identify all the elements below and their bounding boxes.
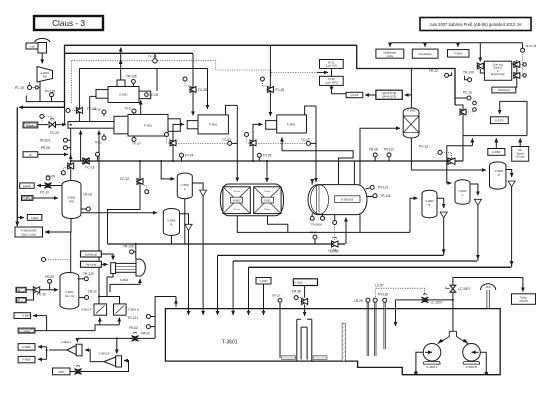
svg-text:(Luft / HG): (Luft / HG) [326,65,337,68]
svg-text:TR-107: TR-107 [132,142,141,146]
svg-text:Fackel: Fackel [23,184,31,188]
svg-text:J-3601 A: J-3601 A [61,340,72,344]
svg-text:PR-18: PR-18 [93,108,101,112]
svg-text:Nd-Kond: Nd-Kond [86,263,97,267]
svg-text:(Luft / HFS): (Luft / HFS) [325,82,338,85]
svg-text:FY-24: FY-24 [185,154,194,158]
svg-text:TR-09/09: TR-09/09 [311,223,322,227]
svg-text:E-3651: E-3651 [492,150,501,154]
svg-text:34-PC-15: 34-PC-15 [526,45,537,48]
svg-text:F-3601: F-3601 [144,124,153,128]
svg-text:FC-10: FC-10 [40,191,49,195]
svg-text:FC-20: FC-20 [50,131,59,135]
svg-text:V-3603: V-3603 [181,183,190,187]
svg-text:TR-108: TR-108 [148,55,157,59]
svg-text:A-3601: A-3601 [41,71,50,75]
svg-text:Beheizungen: Beheizungen [491,73,506,76]
svg-text:FR-38: FR-38 [292,289,301,293]
svg-text:FY-26: FY-26 [263,154,272,158]
svg-text:FC-26: FC-26 [275,88,284,92]
svg-text:TR-106: TR-106 [126,75,137,79]
svg-text:471/2/3: 471/2/3 [519,299,528,303]
svg-text:V-3603: V-3603 [425,199,434,203]
svg-text:FR-28: FR-28 [369,148,378,152]
svg-text:HD-Dampf: HD-Dampf [498,89,510,92]
svg-text:V-3603: V-3603 [167,219,176,223]
svg-text:R-3602: R-3602 [233,200,241,202]
svg-text:V-3604: V-3604 [65,290,74,294]
svg-text:H2: H2 [17,288,21,292]
svg-text:TR-xxx: TR-xxx [264,191,270,193]
svg-text:HG / C2: HG / C2 [65,294,75,298]
svg-text:T-3601: T-3601 [222,340,238,346]
svg-text:D: D [498,173,500,177]
svg-text:C2: C2 [17,298,21,302]
svg-text:V-3602: V-3602 [407,108,416,112]
svg-text:HFS: HFS [25,196,30,200]
svg-text:FR-39: FR-39 [45,275,54,279]
svg-text:N²: N² [29,153,32,157]
svg-text:R-3601: R-3601 [264,200,272,202]
svg-text:Nd-Dampf: Nd-Dampf [85,252,97,256]
svg-text:V-3601: V-3601 [67,196,76,200]
svg-text:Claus - 3: Claus - 3 [52,19,85,28]
svg-text:LC-07: LC-07 [375,283,384,287]
svg-text:LC-09: LC-09 [150,93,159,97]
svg-text:(3.5 bar): (3.5 bar) [516,156,525,159]
svg-text:TR-112: TR-112 [384,148,395,152]
svg-text:E-3602/03: E-3602/03 [341,197,354,201]
svg-text:S-3601 A: S-3601 A [81,308,92,312]
svg-text:Grube: Grube [386,55,393,58]
svg-text:FC-22: FC-22 [120,177,129,181]
svg-text:F-3401: F-3401 [454,52,463,56]
svg-text:S-3604: S-3604 [120,278,129,282]
svg-text:TR-02: TR-02 [124,107,132,111]
svg-text:F-3652: F-3652 [22,345,31,349]
svg-text:V-3407: V-3407 [259,279,268,283]
svg-text:TR-xxx: TR-xxx [233,209,239,211]
svg-text:TR-xxx: TR-xxx [233,191,239,193]
svg-text:B: B [171,222,173,226]
svg-text:LC-1007: LC-1007 [431,300,443,304]
svg-text:TR-12: TR-12 [94,141,102,145]
svg-text:LC-06: LC-06 [330,249,339,253]
svg-text:PC-10: PC-10 [463,91,472,95]
svg-text:B: B [429,203,431,207]
svg-text:FC-09: FC-09 [46,175,55,179]
svg-text:TR-xxx: TR-xxx [264,209,270,211]
svg-text:QC-02: QC-02 [351,93,359,97]
svg-text:J-3601 B: J-3601 B [99,351,110,355]
svg-text:V-3603: V-3603 [458,189,467,193]
svg-text:A: A [184,187,186,191]
svg-text:LR-12: LR-12 [88,290,97,294]
svg-text:Verteilstation: Verteilstation [418,53,432,56]
svg-text:PC-19: PC-19 [15,86,24,90]
svg-text:TR-118: TR-118 [378,292,389,296]
svg-text:TR-117: TR-117 [272,293,281,297]
svg-text:FC-18: FC-18 [86,166,95,170]
svg-text:TR-109: TR-109 [123,244,134,248]
svg-text:E-3703: E-3703 [495,119,504,123]
svg-text:PR-09: PR-09 [41,146,50,150]
svg-text:Erdgas: Erdgas [26,124,35,128]
svg-text:FR-02: FR-02 [129,326,138,330]
svg-text:PC-20: PC-20 [37,292,46,296]
svg-text:TR-123: TR-123 [83,272,94,276]
svg-text:E-3601: E-3601 [119,93,128,97]
svg-text:TR-121: TR-121 [127,316,138,320]
svg-text:LC-3007: LC-3007 [458,287,470,291]
svg-text:TR-103: TR-103 [39,139,50,143]
svg-text:K-3601: K-3601 [295,281,304,285]
svg-text:HTE: HTE [69,200,74,204]
svg-text:P-3602 B: P-3602 B [466,365,477,369]
svg-text:V-3603: V-3603 [495,169,504,173]
svg-text:HDD: HDD [58,370,64,374]
svg-text:PC-12: PC-12 [419,145,428,149]
svg-text:F-3653: F-3653 [22,358,31,362]
svg-text:S-3601: S-3601 [22,314,31,318]
svg-text:F-3602: F-3602 [209,123,218,127]
svg-text:TR-128: TR-128 [45,90,56,94]
svg-text:TC-07: TC-07 [301,138,310,142]
svg-text:FR-27: FR-27 [310,231,318,235]
svg-text:TR-100: TR-100 [463,71,474,75]
svg-text:LR-28: LR-28 [354,299,363,303]
svg-text:FR-22: FR-22 [429,69,438,73]
svg-text:FR-02: FR-02 [141,332,150,336]
svg-text:F-3651/52/53: F-3651/52/53 [21,229,37,233]
svg-text:KSW: KSW [24,330,30,334]
svg-text:T-3601: T-3601 [30,216,39,220]
svg-text:LR-02: LR-02 [84,193,93,197]
svg-text:(Sool / Ind's): (Sool / Ind's) [21,232,36,236]
svg-text:Juni 2007 Sabrina Preß (AB-06): Juni 2007 Sabrina Preß (AB-06) geändert … [430,22,522,27]
svg-text:ATM: ATM [485,286,490,289]
svg-text:Tanks: Tanks [520,295,527,299]
svg-text:S-3601 B: S-3601 B [128,308,139,312]
svg-text:F-3603: F-3603 [287,123,296,127]
svg-text:FC-28: FC-28 [198,88,207,92]
svg-text:P-3602 A: P-3602 A [427,365,438,369]
svg-text:C: C [462,193,464,197]
svg-text:TR-116: TR-116 [380,194,391,198]
svg-text:Luft: Luft [30,45,35,49]
svg-text:TC-63: TC-63 [222,138,231,142]
svg-text:QR-04 (SCF): QR-04 (SCF) [382,96,396,99]
svg-text:A/B: A/B [43,75,47,79]
svg-text:TR-113: TR-113 [378,186,389,190]
